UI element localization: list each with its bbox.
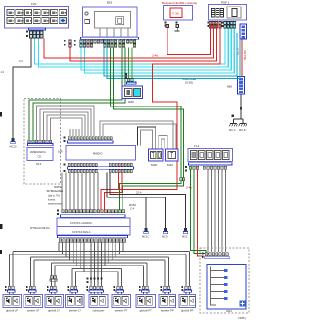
connector 6808 xyxy=(238,77,245,95)
BSI inner pin stubs xyxy=(100,28,128,37)
speaker 8 pins xyxy=(164,286,170,289)
svg-text:MC.A: MC.A xyxy=(229,128,236,132)
kostka upper tick row xyxy=(61,215,126,218)
svg-text:subwoofer: subwoofer xyxy=(93,309,105,313)
antenna loop A xyxy=(100,121,173,149)
svg-text:MC9: MC9 xyxy=(162,235,168,239)
icon cell blue (display) xyxy=(59,18,66,24)
svg-text:WYMAGANIA: WYMAGANIA xyxy=(47,189,64,193)
wire gray bundle 5 xyxy=(51,118,83,140)
speaker 9 pins xyxy=(185,286,191,289)
wire green 13-6 drop a xyxy=(191,169,207,253)
svg-text:32-A: 32-A xyxy=(136,191,142,195)
wire gray bundle 2 xyxy=(40,109,91,140)
wire red radio stub 1 xyxy=(118,173,120,190)
svg-text:MC10: MC10 xyxy=(10,145,17,149)
subwoofer pin marks xyxy=(87,278,103,283)
kostka pin marks xyxy=(57,210,59,212)
svg-text:1V0: 1V0 xyxy=(31,2,37,6)
connector blue right of PSF1 xyxy=(240,24,247,39)
wire green antenna amp b xyxy=(131,48,133,79)
PSF1 pins middle xyxy=(222,22,224,24)
svg-text:MA5A: MA5A xyxy=(129,203,136,207)
fuse box BSI xyxy=(164,6,193,21)
wire red radio to kostka xyxy=(105,173,122,210)
amplifier elements xyxy=(224,269,227,300)
control panel 1V0 box xyxy=(5,7,69,29)
PSF1 pins left xyxy=(208,22,210,24)
kostka upper pins xyxy=(62,210,125,213)
svg-text:tweeter LT: tweeter LT xyxy=(69,309,81,313)
pin numbers 1V0 xyxy=(26,31,28,33)
radio bottom tick row xyxy=(68,167,134,169)
speaker 4 pins xyxy=(71,286,77,289)
BSI inner module xyxy=(95,12,131,29)
wire green CD a xyxy=(29,48,122,141)
icon glyphs row 1 xyxy=(9,11,66,13)
speaker fan bus xyxy=(10,242,190,286)
wire gray 13-6 drops xyxy=(208,169,226,252)
speaker 7 pins xyxy=(142,286,148,289)
amplifier pins xyxy=(205,253,228,256)
BSI pin row xyxy=(80,40,136,43)
svg-text:C-4: C-4 xyxy=(130,207,135,211)
BSI connector tick row xyxy=(81,37,139,39)
ground MC-1 xyxy=(145,228,148,231)
antenna loop B xyxy=(103,124,176,149)
svg-text:Bezpieczniki BSI i obwody: Bezpieczniki BSI i obwody xyxy=(162,1,198,5)
wire cyan 2 panel to PSF1 xyxy=(39,29,229,68)
antenna loop 4 xyxy=(161,139,164,149)
ground MC-2 xyxy=(164,228,167,231)
svg-text:tweeter PP: tweeter PP xyxy=(161,309,174,313)
antenna amp box 9660 xyxy=(122,86,143,99)
speaker 6 box xyxy=(112,295,131,308)
inline connector above speaker 3 xyxy=(50,276,53,279)
svg-text:MC.B: MC.B xyxy=(239,128,246,132)
svg-text:głośnik LT: głośnik LT xyxy=(48,309,60,313)
svg-text:9660: 9660 xyxy=(128,100,134,104)
fuse F36 xyxy=(170,8,182,18)
box 13-6 pin marks xyxy=(185,166,187,168)
speaker 1 box xyxy=(3,295,22,308)
amplifier dashed enclosure xyxy=(200,248,249,313)
antenna amp pins xyxy=(125,73,127,75)
wire teal 1 xyxy=(104,33,237,76)
svg-text:PSF 1: PSF 1 xyxy=(221,1,230,5)
svg-text:RADIO: RADIO xyxy=(93,152,103,156)
speaker 9 box xyxy=(179,295,196,308)
antenna loop 3 xyxy=(159,136,167,149)
antenna loop 2 xyxy=(141,130,153,149)
svg-text:MC1C: MC1C xyxy=(142,235,149,239)
svg-text:2-4V: 2-4V xyxy=(186,186,192,190)
svg-text:MC5: MC5 xyxy=(182,235,188,239)
svg-text:892-8S: 892-8S xyxy=(243,50,247,60)
amplifier pin marks xyxy=(202,253,204,255)
svg-text:8408: 8408 xyxy=(151,163,157,167)
box 13-6 cells xyxy=(191,151,230,160)
ground MC.A xyxy=(229,107,242,132)
wire green mid run a xyxy=(111,48,181,210)
kostka lower pins xyxy=(59,239,126,242)
BSI pin number row xyxy=(80,39,134,40)
svg-text:WYMAGANE RA: WYMAGANE RA xyxy=(30,226,50,230)
PSF1 relay cell xyxy=(227,7,241,18)
wire red b panel to PSF1 xyxy=(44,24,214,58)
speaker 3 pins xyxy=(50,286,56,289)
wire red c BSI to PSF1 xyxy=(70,24,217,62)
subwoofer wires xyxy=(91,242,102,286)
svg-text:kostra: kostra xyxy=(48,198,56,202)
BSI left glyph circle xyxy=(85,12,88,15)
radio bottom pin marks xyxy=(64,164,66,166)
svg-text:CD: CD xyxy=(38,155,42,159)
wire gray bundle 3 xyxy=(44,112,89,140)
amplifier tick row xyxy=(205,256,230,258)
antenna loop 1 xyxy=(138,127,156,149)
wire gray stubs radio top xyxy=(70,129,79,136)
speaker 1 pins xyxy=(8,286,14,289)
radio top tick row xyxy=(68,141,114,143)
svg-text:głośnik PP: głośnik PP xyxy=(181,309,194,313)
antenna box 840A xyxy=(166,149,179,167)
BSI red pin left xyxy=(69,40,72,43)
wire red a BSI fuse to PSF1 xyxy=(167,24,210,55)
wire black ground run a xyxy=(110,173,186,229)
speaker 8 box xyxy=(159,295,176,308)
svg-text:840A: 840A xyxy=(167,163,173,167)
wire teal 2 xyxy=(107,39,240,78)
ground MC10 pin xyxy=(12,138,15,141)
PSF1 fuse 1 xyxy=(212,9,215,18)
BSI pin numbers xyxy=(64,40,66,46)
BSI left glyph grid xyxy=(85,20,90,24)
ground MC.B xyxy=(232,115,248,133)
svg-text:16P: 16P xyxy=(58,150,63,154)
box 13-6 tick row xyxy=(189,163,233,165)
svg-text:tweeter LP: tweeter LP xyxy=(27,309,40,313)
kostka left drops xyxy=(59,242,77,266)
PSF1 box xyxy=(209,5,247,21)
speaker 2 box xyxy=(24,295,43,308)
svg-text:ZMIENIARKA: ZMIENIARKA xyxy=(30,150,46,154)
amplifier unit box xyxy=(207,265,246,310)
wire cyan 4 BSI to PSF1 xyxy=(85,29,235,74)
radio top pin squares xyxy=(68,137,112,140)
icon cells row 2 xyxy=(7,18,58,24)
wire cyan 3 BSI to PSF1 xyxy=(81,29,231,71)
wire green 13-6 drop b xyxy=(194,169,209,256)
page edge marks xyxy=(0,112,2,117)
wire black panel to ground xyxy=(13,39,31,139)
wire gray bundle 4 xyxy=(47,115,85,140)
svg-text:KOSTKA BIALA: KOSTKA BIALA xyxy=(72,230,91,234)
wire green antenna amp a xyxy=(128,48,130,79)
svg-text:(3-25): (3-25) xyxy=(185,81,193,85)
wire black ground run b xyxy=(107,173,166,229)
wire 6808 to grounds xyxy=(234,94,244,123)
svg-text:B51: B51 xyxy=(107,1,113,5)
speaker 5 box xyxy=(89,295,108,308)
svg-text:3.4: 3.4 xyxy=(19,59,23,63)
wire red 6CV to connector 6808 xyxy=(241,39,243,77)
wire green CD b xyxy=(33,48,125,141)
PSF1 fuse 3 xyxy=(220,9,223,18)
svg-text:680: 680 xyxy=(227,85,232,89)
wire gray radio to kostka bundle xyxy=(62,173,98,210)
svg-text:awansowan: awansowan xyxy=(48,203,62,206)
antenna box 840B xyxy=(149,149,164,167)
inline connector on green pair xyxy=(180,178,182,181)
svg-text:głośnik PT: głośnik PT xyxy=(140,309,153,313)
box 13-6 xyxy=(188,149,233,162)
speaker 3 box xyxy=(45,295,64,308)
svg-text:tweeter PT: tweeter PT xyxy=(115,309,128,313)
speaker 4 box xyxy=(66,295,85,308)
wire cyan 1 panel to PSF1 xyxy=(35,29,226,65)
speaker 6 pins xyxy=(117,286,123,289)
svg-text:F 36: F 36 xyxy=(173,12,179,16)
radio bottom pin squares row2 xyxy=(68,170,132,173)
radio pin number marks xyxy=(64,137,66,139)
svg-text:(jak m. Pr): (jak m. Pr) xyxy=(48,194,60,198)
svg-text:NOTE: NOTE xyxy=(54,185,62,189)
svg-text:2-46: 2-46 xyxy=(152,54,158,58)
svg-text:CDPb.j: CDPb.j xyxy=(238,316,247,320)
wire red 13-6 drop xyxy=(198,169,205,256)
speaker 7 box xyxy=(136,295,156,308)
icon cells row 1 xyxy=(7,10,66,16)
CD changer tick row xyxy=(28,144,54,146)
kostka lower tick row xyxy=(58,236,128,238)
wire green mid run b xyxy=(114,48,184,210)
shield dashed box xyxy=(24,99,61,185)
wire black ground branch xyxy=(145,197,147,228)
PSF1 fuse 2 xyxy=(216,9,219,18)
terminator stub xyxy=(176,28,178,32)
BSI inner relay xyxy=(116,17,124,25)
wire gray bundle 1 xyxy=(37,106,95,140)
amplifier plus element xyxy=(240,301,246,307)
svg-text:1.0: 1.0 xyxy=(1,70,5,74)
CD changer pins xyxy=(28,140,52,143)
icon glyphs row 2 xyxy=(9,19,58,21)
speaker 5 pins xyxy=(90,286,103,289)
ground MC-3 xyxy=(184,228,187,231)
radio unit box xyxy=(66,146,136,161)
svg-text:głośnik LP: głośnik LP xyxy=(6,309,18,313)
svg-text:13-6: 13-6 xyxy=(194,144,200,148)
wire red d long run xyxy=(101,24,220,210)
amplifier internal bus xyxy=(211,267,225,306)
svg-text:4913: 4913 xyxy=(226,309,232,313)
CD changer box xyxy=(27,148,53,161)
BSI pin row 2 xyxy=(80,44,136,47)
radio bottom pin squares xyxy=(68,163,132,166)
svg-text:84-3: 84-3 xyxy=(36,162,42,166)
speaker 2 pins xyxy=(29,286,35,289)
kostka connector box xyxy=(57,218,130,235)
box 13-6 pins xyxy=(189,166,226,169)
connector pins under 1V0 xyxy=(29,28,46,38)
BSI unit box xyxy=(83,7,138,37)
svg-text:KOSTKA CZARNA: KOSTKA CZARNA xyxy=(70,221,92,225)
fuse box pins xyxy=(165,22,167,24)
